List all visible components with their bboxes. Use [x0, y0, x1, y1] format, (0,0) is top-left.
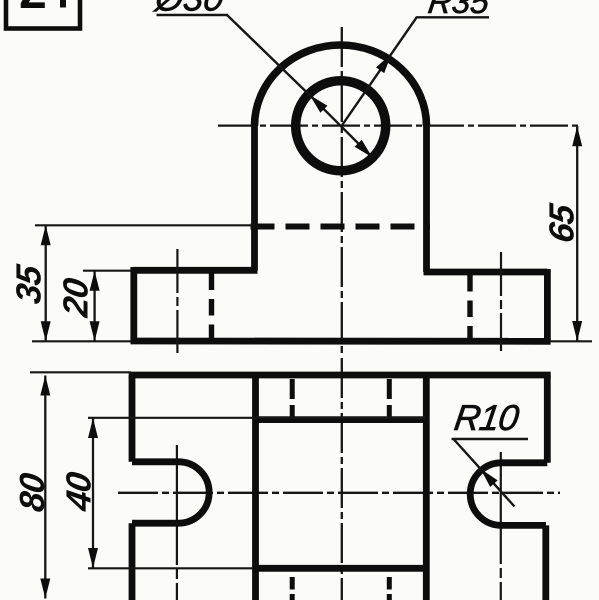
plan: right notch axis — [500, 452, 502, 600]
dimension 35: line — [45, 225, 47, 341]
leader D30: diagonal to circle — [227, 15, 311, 97]
plan: vertical centerline — [341, 358, 343, 600]
arrow 35 top — [41, 225, 51, 245]
front view outline: left flange top — [134, 267, 258, 274]
arrow 65 bottom — [572, 321, 582, 341]
leader D30: underline — [157, 14, 228, 16]
plan outline: right notch top — [502, 459, 548, 466]
front view outline: base bottom — [131, 338, 551, 345]
hidden line: horizontal dashed across column — [251, 224, 431, 230]
plan outline: top edge — [129, 372, 551, 379]
arrow 65 top — [572, 126, 582, 146]
dimension D30: diameter line across hole — [310, 95, 373, 157]
extension line base bottom left — [32, 340, 131, 342]
plan outline: left notch bottom — [132, 520, 179, 527]
arrow 40 top — [88, 418, 98, 438]
dimension 20: line — [93, 271, 95, 342]
plan outline: right edge lower — [542, 525, 549, 600]
arrow 80 top — [40, 376, 50, 396]
plan hidden line left upper — [290, 379, 295, 418]
extension line base bottom right — [550, 340, 592, 342]
svg-text:65: 65 — [543, 201, 582, 245]
plan outline: right notch bottom — [502, 522, 547, 529]
arrow 20 bottom — [90, 321, 100, 341]
arrow 40 bottom — [88, 548, 98, 568]
front view outline: right flange top — [424, 269, 548, 276]
plan hidden line right upper — [387, 379, 392, 418]
plan hidden line right lower — [387, 577, 392, 600]
arrow D30 lower-right — [355, 140, 376, 161]
svg-text:20: 20 — [57, 275, 96, 320]
plan outline: left notch arc R10 — [179, 462, 210, 523]
plan outline: left edge lower — [129, 523, 136, 600]
plan thin line lower (40 lower extension) — [88, 567, 253, 569]
arrow R10 — [477, 465, 498, 487]
svg-text:80: 80 — [13, 470, 52, 514]
svg-text:2: 2 — [19, 0, 47, 19]
centerline: left flange notch axis (front) — [176, 249, 178, 353]
problem number box 21 — [6, 0, 80, 29]
front view outline: left flange edge — [130, 267, 137, 341]
leader R10: diagonal — [454, 439, 515, 507]
leader R35: diagonal to arc — [342, 17, 418, 126]
plan: horizontal centerline — [118, 492, 560, 494]
svg-text:R35: R35 — [426, 0, 492, 21]
extension line at hidden step (35 top) — [35, 224, 255, 226]
arrow R35 — [376, 51, 396, 73]
arrow 80 bottom — [40, 579, 50, 599]
plan outline: left notch top — [132, 458, 179, 465]
plan: central square right edge — [423, 375, 430, 600]
hole circle D30 — [296, 81, 386, 171]
plan outline: right edge upper — [544, 375, 551, 463]
dimension 40: line — [92, 418, 94, 568]
plan: central square left edge — [252, 375, 259, 600]
plan hidden line left lower — [290, 577, 295, 600]
front view outline: left column edge — [251, 126, 258, 270]
dimension 65: line — [576, 126, 578, 341]
svg-text:35: 35 — [10, 262, 49, 306]
arrow 20 top — [90, 271, 100, 291]
plan thin line across top band (40 upper extension) — [88, 417, 425, 419]
plan top extension (80 upper) — [30, 371, 131, 373]
dimension 80: line — [44, 376, 46, 599]
plan outline: left edge upper — [129, 375, 136, 462]
plan: left notch axis — [176, 445, 178, 600]
centerline: right flange notch axis (front) — [500, 252, 502, 351]
front view: vertical centerline — [341, 27, 343, 355]
front view: horizontal centerline through hole — [218, 124, 579, 126]
front view outline: top arc R35 — [255, 45, 427, 126]
arrow D30 upper-left — [306, 92, 327, 113]
leader R35: underline — [417, 16, 490, 18]
hidden line: right flange notch edge — [467, 275, 472, 339]
arrow 35 bottom — [41, 321, 51, 341]
svg-text:40: 40 — [60, 469, 99, 514]
plan: central square top line — [256, 416, 427, 423]
plan outline: right notch arc R10 — [470, 463, 501, 526]
svg-text:Ø30: Ø30 — [152, 0, 227, 18]
plan: central square bottom line — [256, 565, 427, 572]
leader R10: underline — [452, 438, 529, 440]
svg-text:R10: R10 — [452, 397, 522, 438]
front view outline: right flange edge — [544, 269, 551, 341]
front view outline: right column edge — [423, 126, 430, 272]
hidden line: left flange notch edge — [209, 274, 214, 339]
extension line flange top left (20 top) — [83, 270, 131, 272]
